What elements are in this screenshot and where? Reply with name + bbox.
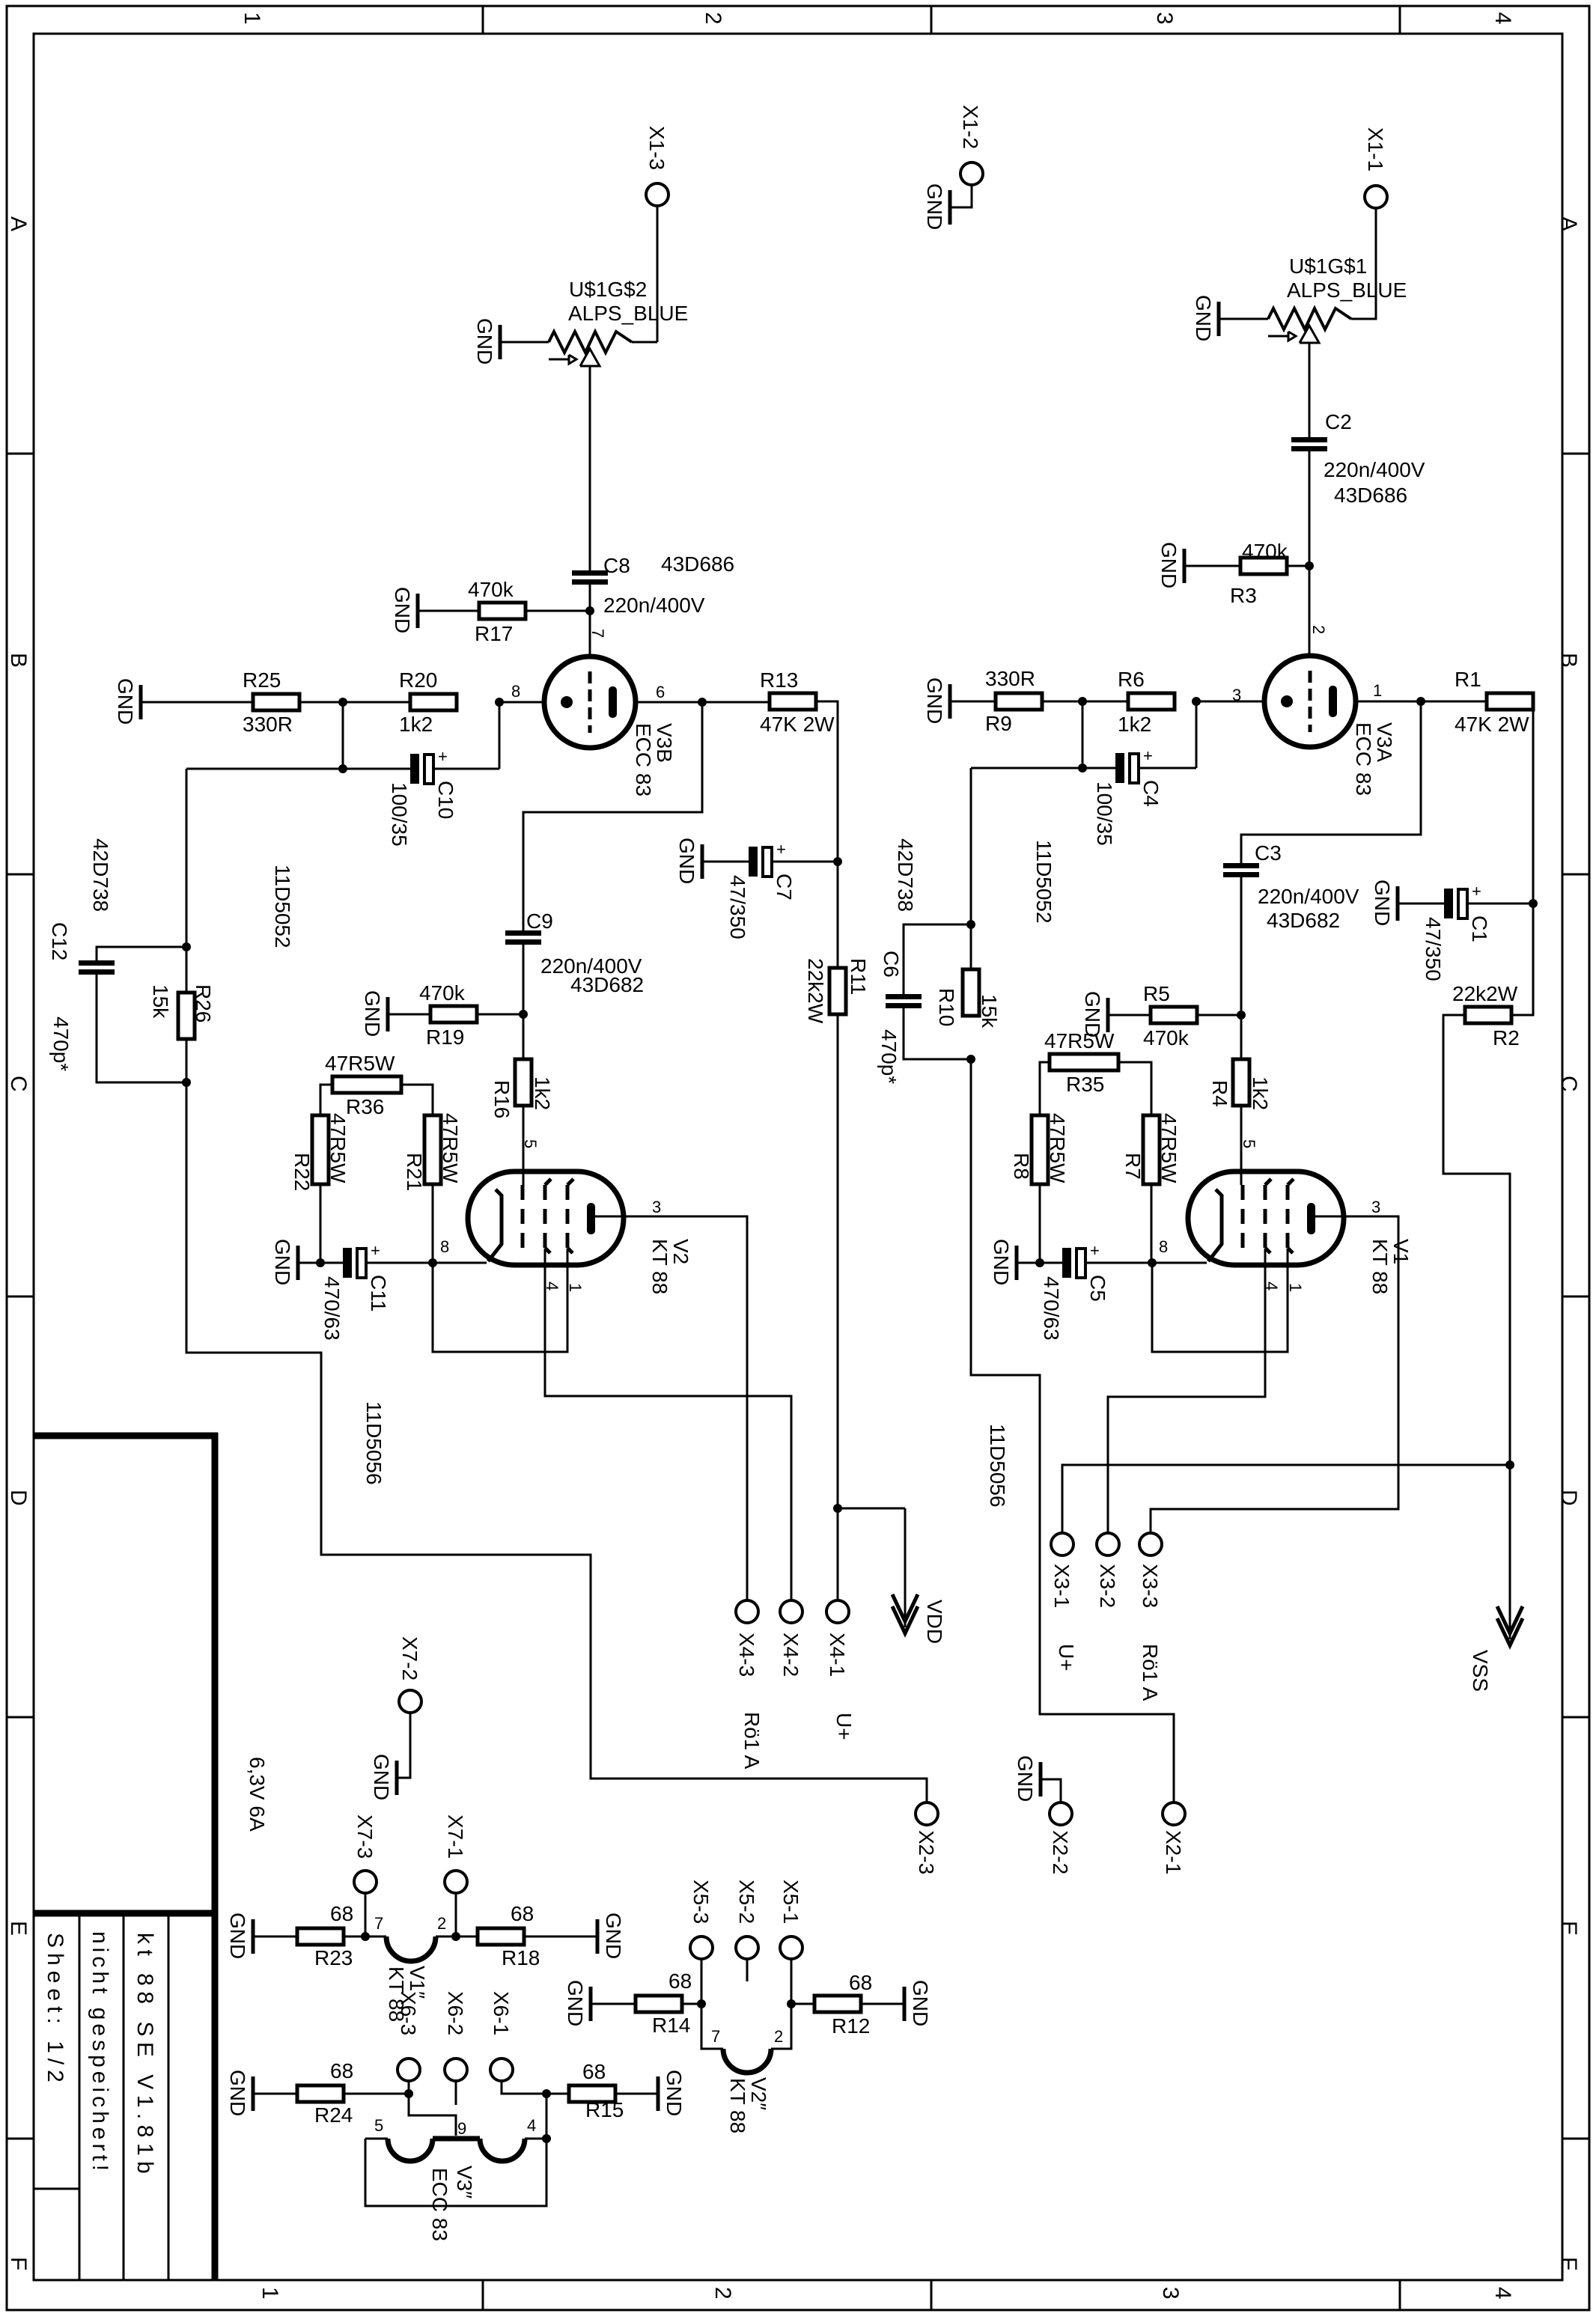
wire X2-2 to gnd [1042,1779,1061,1802]
svg-text:GND: GND [1192,295,1215,341]
svg-text:2: 2 [701,12,725,25]
wire X4-3 stub [746,1533,749,1600]
svg-text:V3B: V3B [653,723,676,763]
capacitor C2 [1291,410,1425,507]
ground R5 [1081,991,1108,1037]
node C8 R17 [585,606,594,615]
svg-text:42D738: 42D738 [89,838,112,912]
wire feedback to C4 [971,767,1115,770]
node X7-1 R18 [451,1932,460,1941]
svg-text:470p*: 470p* [877,1029,901,1084]
pin label 4 V1 [1262,1282,1281,1290]
svg-text:X5-3: X5-3 [689,1880,713,1924]
wire R6 to V3A grid [1196,701,1264,703]
resistor R36 [325,1052,401,1118]
wire R15 to gnd [615,2093,657,2095]
pin label 1 V2b [566,1283,585,1292]
svg-text:1: 1 [240,12,264,25]
svg-text:7: 7 [588,629,607,638]
capacitor C6 [886,994,922,1008]
pin label 3 V1b [1371,1198,1380,1216]
resistor R20 [399,668,457,736]
ground C11 [271,1239,298,1285]
svg-text:68: 68 [582,2060,606,2083]
resistor R15 [569,2060,624,2121]
node VDD [833,1504,842,1513]
svg-text:X4-2: X4-2 [779,1633,802,1677]
wire R10 stub top [970,924,972,969]
svg-text:GND: GND [370,1754,393,1800]
svg-text:U+: U+ [832,1713,856,1740]
connector X3-2 [1096,1533,1119,1608]
svg-text:68: 68 [330,2059,353,2082]
pin label 7 V2h [711,2027,720,2046]
svg-text:C9: C9 [526,909,553,933]
svg-text:GND: GND [226,2070,249,2116]
connector X1-3 [645,126,668,206]
wire gnd to C7 [704,861,749,863]
svg-text:+: + [438,747,448,766]
node R21 cathode [428,1258,437,1267]
svg-text:GND: GND [114,678,137,725]
wire node to R15 [546,2093,569,2095]
svg-text:KT 88: KT 88 [726,2078,749,2133]
wire R36 left to R22 [320,1085,332,1115]
svg-text:V2: V2 [669,1239,692,1264]
ground R3 [1157,542,1184,588]
pin label 5 V3h [374,2116,383,2135]
wire C10 to cathode node [434,768,499,770]
svg-text:GND: GND [675,838,698,884]
resistor R2 [1452,982,1520,1049]
svg-text:+: + [776,840,786,859]
resistor R21 [403,1113,462,1191]
svg-text:11D5056: 11D5056 [362,1401,386,1485]
svg-text:R19: R19 [426,1026,464,1049]
svg-text:X3-1: X3-1 [1050,1564,1073,1608]
svg-text:C: C [1556,1076,1581,1092]
svg-text:2: 2 [710,2287,735,2300]
wire R2 left to VSS line [1443,1015,1510,1465]
svg-text:68: 68 [511,1902,534,1925]
svg-text:R24: R24 [314,2103,353,2127]
resistor R14 [636,1969,692,2037]
svg-text:X6-3: X6-3 [397,1991,420,2035]
heater V2'' KT88 [723,2049,771,2133]
wire V3A anode to R1 [1356,701,1487,703]
wire gnd to R24 [255,2093,297,2095]
connector X5-3 [689,1880,713,1959]
svg-text:47/350: 47/350 [726,875,749,939]
svg-text:R17: R17 [475,622,513,645]
ground X7-2 [370,1754,397,1800]
svg-text:U$1G$2: U$1G$2 [569,278,647,301]
wire R18 to gnd [524,1936,596,1938]
svg-text:X5-1: X5-1 [779,1880,802,1924]
svg-text:+: + [371,1241,380,1260]
svg-text:7: 7 [711,2027,720,2046]
svg-text:6: 6 [656,683,665,701]
label U+ left [832,1713,856,1740]
svg-text:1: 1 [566,1283,585,1292]
svg-text:3: 3 [1371,1198,1380,1216]
svg-text:47R5W: 47R5W [1157,1113,1181,1183]
svg-text:R21: R21 [403,1153,426,1191]
svg-text:GND: GND [923,183,946,230]
connector X7-3 [353,1814,377,1893]
svg-text:ALPS_BLUE: ALPS_BLUE [1287,278,1407,302]
node C6 top [966,920,975,929]
connector X4-3 [735,1600,758,1677]
resistor R7 [1121,1113,1181,1184]
svg-text:GND: GND [602,1913,625,1959]
wire anode node to C9 [523,702,702,930]
svg-text:R9: R9 [985,712,1012,735]
svg-text:F: F [1556,2257,1581,2270]
svg-text:V3″: V3″ [453,2166,476,2198]
svg-text:220n/400V: 220n/400V [1324,458,1425,481]
resistor R22 [290,1113,350,1191]
wire C3 to node R5 [1240,877,1243,1059]
frame column ticks [483,6,1400,2310]
wire V1 g2 to X3-2 [1108,1249,1265,1533]
wire R16 to V2 grid [523,1106,525,1185]
wire V3B anode to R13 [636,701,770,704]
svg-text:22k2W: 22k2W [804,958,827,1024]
svg-text:1: 1 [1373,681,1382,700]
wire C12 jog bottom [97,975,186,1082]
resistor R25 [243,668,299,736]
svg-text:43D686: 43D686 [1334,484,1407,507]
heater V1'' KT88 [385,1936,436,2022]
wire R9 to R6 [1042,701,1128,703]
svg-text:X7-2: X7-2 [398,1636,421,1680]
node X6-1 R15 [542,2089,551,2098]
svg-text:1: 1 [1286,1283,1305,1292]
svg-text:15k: 15k [978,994,1001,1029]
pin label 8 V2 [440,1237,449,1256]
svg-text:470/63: 470/63 [1040,1276,1063,1341]
svg-text:68: 68 [668,1969,692,1993]
resistor R1 [1455,668,1533,736]
resistor R6 [1118,668,1175,736]
resistor R8 [1010,1113,1069,1184]
ground R23 [226,1913,253,1959]
potentiometer U$1G$1 [1268,255,1407,343]
wire gnd to R19 [389,1014,430,1016]
svg-text:GND: GND [391,587,414,633]
wire C2 to node [1309,451,1311,671]
label C12 [48,922,73,1071]
wire gnd to R3 [1186,565,1240,567]
label C6 [877,951,903,1084]
svg-text:470k: 470k [419,981,466,1005]
connector X5-2 [735,1880,758,1959]
svg-text:R13: R13 [760,668,798,692]
svg-text:3: 3 [652,1198,661,1216]
svg-text:E: E [1556,1921,1581,1936]
wire C6 jog bottom [904,1008,971,1059]
svg-text:1k2: 1k2 [399,713,433,736]
resistor R24 [297,2059,353,2127]
ground R18 [597,1913,625,1959]
svg-text:C7: C7 [773,874,796,901]
wire cathode to V2 [433,1262,487,1264]
svg-text:R10: R10 [935,988,958,1026]
resistor R4 [1208,1059,1272,1110]
svg-text:KT 88: KT 88 [1368,1239,1392,1294]
node C12 bottom [182,1078,191,1087]
capacitor C8 [572,552,734,617]
svg-text:47R5W: 47R5W [325,1052,395,1075]
svg-text:330R: 330R [985,667,1035,690]
wire node down to C10 row right [499,702,501,769]
svg-text:VDD: VDD [923,1600,946,1644]
capacitor C10 [388,747,457,847]
wire feedback down to X2-3 [186,1082,927,1802]
frame row letters right [1556,216,1581,2270]
svg-text:R7: R7 [1121,1153,1145,1180]
svg-text:43D686: 43D686 [661,552,734,576]
svg-text:47K 2W: 47K 2W [760,713,835,736]
resistor R13 [760,668,835,736]
connector X6-1 [490,1991,513,2081]
wire V1 anode to X3-3 [1151,1216,1398,1533]
label U+ right [1055,1644,1078,1672]
svg-text:470k: 470k [468,578,514,601]
pin label 7 V3B [588,629,607,638]
wire pot right to X1-3 wire [632,341,657,344]
wire X1-1 to pot [1351,208,1376,319]
pentode V2 KT88 [468,1171,692,1294]
ground C1 [1371,880,1398,926]
node C2 R3 [1305,561,1314,570]
node X7-3 R23 [361,1932,370,1941]
connector X6-2 [444,1991,467,2081]
svg-text:2: 2 [437,1914,446,1933]
svg-text:GND: GND [473,318,496,365]
wire C11 to cathode node [367,1262,433,1264]
svg-text:GND: GND [564,1980,587,2026]
svg-text:B: B [6,653,31,668]
svg-text:4: 4 [1490,12,1515,25]
ground C5 [990,1239,1017,1285]
wire V2 g2 to X4-2 [545,1249,791,1600]
wire gnd to pot left right ch [1220,318,1268,320]
svg-text:68: 68 [330,1902,353,1925]
svg-text:1k2: 1k2 [1118,713,1151,736]
svg-text:X7-1: X7-1 [444,1814,467,1859]
pin label 1 V3A [1373,681,1382,700]
wire gnd to R9 [951,701,996,703]
wire X5-3 down [701,1959,703,2004]
wire R21 down [432,1184,434,1263]
wire R23 to heater V1h [344,1936,386,1938]
label 42D738 left [89,838,112,912]
svg-text:R2: R2 [1493,1026,1520,1049]
svg-text:GND: GND [923,677,946,724]
svg-text:B: B [1556,653,1581,668]
wire feedback to C10 [186,768,410,770]
frame column numbers bottom [258,2287,1515,2300]
svg-text:ALPS_BLUE: ALPS_BLUE [568,302,688,325]
svg-text:nicht gespeichert!: nicht gespeichert! [88,1931,112,2175]
svg-text:R35: R35 [1066,1073,1104,1096]
wire pot U$1G$2 wiper to C8 [589,366,591,570]
svg-text:U$1G$1: U$1G$1 [1289,255,1367,278]
node C4 left [1078,764,1087,772]
svg-text:+: + [1472,882,1481,901]
resistor R23 [297,1902,353,1969]
svg-text:C6: C6 [880,951,903,978]
wire X6-3 down [408,2081,410,2094]
svg-text:R1: R1 [1455,668,1481,691]
wire R35 right to R7 [1118,1062,1151,1115]
wire heater V1h to R18 [436,1936,478,1938]
label 6.3V 6A [246,1757,269,1832]
svg-text:GND: GND [1371,880,1394,926]
node X5-3 R14 [697,1999,706,2008]
svg-text:11D5052: 11D5052 [271,865,294,948]
svg-text:C3: C3 [1255,841,1282,865]
svg-text:47R5W: 47R5W [439,1113,462,1183]
svg-text:C8: C8 [603,554,630,577]
connector X3-3 [1139,1533,1162,1608]
pin label 8 V1 [1159,1237,1168,1256]
wire heater V3h loop [365,2139,546,2206]
wire R36 right to R21 [401,1085,433,1115]
wire heater V2h left leg [701,2004,723,2049]
svg-text:470k: 470k [1242,540,1288,563]
wire R22 down [320,1184,322,1263]
svg-text:2: 2 [774,2027,783,2046]
node R22 C11 [316,1258,325,1267]
wire C12 jog top [97,947,186,960]
svg-text:+: + [1143,746,1153,765]
wire C4 to cathode node [1139,767,1196,770]
resistor R35 [1044,1029,1118,1096]
svg-text:4: 4 [527,2116,536,2135]
svg-text:V1: V1 [1389,1239,1413,1264]
connector X1-2 [959,105,983,185]
node V3B anode [698,698,707,707]
wire gnd to C5 [1018,1262,1062,1264]
connector X4-2 [779,1600,802,1677]
svg-text:4: 4 [1490,2287,1515,2300]
svg-text:R25: R25 [243,668,281,692]
wire R20 to V3B grid [499,701,544,704]
wire R14 to heater V2h [682,2003,701,2005]
svg-text:100/35: 100/35 [388,782,411,847]
wire X7-2 to gnd [398,1713,410,1778]
svg-text:GND: GND [361,990,384,1037]
svg-text:2: 2 [1309,625,1328,634]
resistor R9 [985,667,1042,735]
wire R7 down [1151,1184,1153,1263]
label 11D5052 left [271,865,294,948]
svg-text:ECC 83: ECC 83 [632,723,655,796]
ground R19 [361,990,388,1037]
ground R17 [391,587,418,633]
svg-text:C12: C12 [48,922,71,960]
wire R8 down [1039,1184,1041,1263]
svg-text:X3-2: X3-2 [1096,1564,1119,1608]
node X5-1 R12 [787,1999,796,2008]
heater V3'' right arc [480,2139,525,2161]
svg-text:R16: R16 [490,1080,514,1118]
ground C7 [675,838,702,884]
ground pot U$1G$1 [1192,295,1219,341]
svg-text:X1-2: X1-2 [959,105,982,149]
svg-text:X2-3: X2-3 [915,1830,938,1874]
capacitor C4 [1093,746,1163,846]
node X6-3 R24 [404,2089,413,2098]
wire R1 down to C1 node [1511,701,1533,1015]
ground pot U$1G$2 [473,318,500,365]
ground R9 [923,677,950,724]
wire V2 cathode tie [433,1249,567,1352]
svg-text:R4: R4 [1208,1080,1231,1107]
wire node down to pin4 [546,2094,548,2139]
connector X7-2 [398,1636,421,1713]
title text name [133,1933,157,2179]
svg-text:C11: C11 [367,1275,390,1311]
connector X7-1 [444,1814,467,1893]
ground R24 [226,2070,253,2116]
node R7 cathode [1148,1258,1157,1267]
wire V1 cathode tie [1152,1249,1288,1352]
wire node down to C10 row left [342,702,344,769]
svg-text:A: A [6,216,31,231]
wire pot U$1G$1 wiper to C2 [1309,343,1311,437]
wire heater V3h pin5 stub [365,2138,388,2140]
svg-text:100/35: 100/35 [1093,781,1116,846]
pin label 6 V3B [656,683,665,701]
svg-text:GND: GND [990,1239,1013,1285]
svg-text:GND: GND [663,2070,686,2116]
svg-text:C4: C4 [1139,780,1163,807]
svg-text:Sheet: 1/2: Sheet: 1/2 [43,1933,67,2088]
resistor R10 [935,969,1001,1029]
resistor R5 [1143,982,1197,1049]
pin label 3 V2b [652,1198,661,1216]
svg-text:kt 88 SE V1.81b: kt 88 SE V1.81b [133,1933,157,2179]
svg-text:R12: R12 [832,2014,870,2038]
pin label 5 V1 [1240,1139,1258,1148]
wire C6 jog top [904,924,971,994]
wire cathode to V1 [1152,1262,1207,1264]
node R25 R20 [338,698,347,707]
node C10 left [338,764,347,773]
svg-text:A: A [1556,216,1581,231]
pentode V1 KT88 [1188,1171,1413,1294]
svg-text:C2: C2 [1325,410,1352,433]
wire X7-1 down [455,1893,457,1936]
svg-text:47K 2W: 47K 2W [1455,713,1529,736]
wire X6-1 down [502,2081,546,2094]
pin label 9 V3h [457,2119,466,2138]
wire R3 to node [1287,565,1309,567]
frame row letters left [6,216,31,2270]
wire heater V3h pin4 stub [525,2138,546,2140]
svg-text:9: 9 [457,2119,466,2138]
svg-text:C10: C10 [434,781,457,819]
ground R15 [658,2070,686,2116]
wire X1-2 to gnd [951,185,972,207]
capacitor C9 [505,909,644,996]
triode V3A ECC83 [1264,656,1396,796]
svg-text:R23: R23 [314,1946,353,1969]
